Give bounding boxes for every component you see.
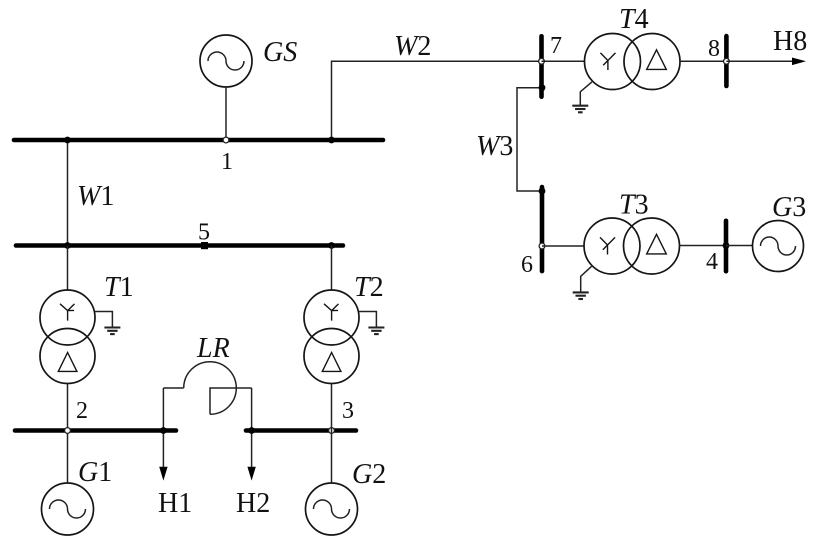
junction bus3-H2 xyxy=(248,427,255,434)
svg-text:G3: G3 xyxy=(772,192,806,223)
svg-text:T3: T3 xyxy=(619,190,649,221)
svg-text:H1: H1 xyxy=(158,488,192,519)
bus 2 xyxy=(15,428,176,433)
svg-text:2: 2 xyxy=(76,398,88,424)
wire T1 to G1 xyxy=(67,384,69,483)
node 1 (open circle) xyxy=(223,137,229,143)
svg-text:LR: LR xyxy=(196,333,230,364)
svg-text:3: 3 xyxy=(342,398,354,424)
wire bus5 to T2 xyxy=(331,246,333,291)
junction bus6-W3 xyxy=(539,188,546,195)
junction bus7-W3 xyxy=(539,84,546,91)
transformer T4 xyxy=(585,34,681,90)
svg-text:T4: T4 xyxy=(619,4,649,35)
svg-text:W2: W2 xyxy=(394,31,431,62)
svg-text:H8: H8 xyxy=(773,26,807,57)
junction bus2-H1 xyxy=(160,427,167,434)
wire W2 xyxy=(332,61,542,140)
transformer T3 xyxy=(584,218,680,274)
junction bus4 xyxy=(723,242,730,249)
svg-text:T2: T2 xyxy=(354,272,384,303)
wire GS to bus 1 xyxy=(225,87,227,140)
bus 6 xyxy=(540,187,545,271)
svg-text:G2: G2 xyxy=(352,459,386,490)
generator G2 xyxy=(306,483,358,535)
bus 4 xyxy=(724,221,729,271)
wire T2 to G2 xyxy=(331,384,333,483)
svg-text:T1: T1 xyxy=(104,272,134,303)
load arrow H1 xyxy=(159,467,167,481)
svg-text:1: 1 xyxy=(221,149,233,175)
reactor LR xyxy=(163,362,251,415)
ground T2 xyxy=(359,312,384,335)
wire T3 to bus 4 xyxy=(680,245,727,247)
node wire-bus8 (open circle) xyxy=(724,58,730,64)
wire bus7 to T4 xyxy=(542,60,585,62)
generator G1 xyxy=(42,483,94,535)
svg-text:H2: H2 xyxy=(236,488,270,519)
svg-text:G1: G1 xyxy=(78,457,112,488)
generator GS xyxy=(200,35,252,87)
junction bus1-W1 xyxy=(64,137,71,144)
bus 5 xyxy=(16,243,343,248)
node T2-bus3 (open circle) xyxy=(329,428,335,434)
bus 7 xyxy=(539,36,544,96)
svg-text:W1: W1 xyxy=(77,181,114,212)
wire T4 to bus 8 xyxy=(680,60,726,62)
generator G3 xyxy=(753,221,804,272)
wire LR right to H2 xyxy=(251,388,253,468)
svg-text:4: 4 xyxy=(706,249,718,275)
junction bus1-W2 xyxy=(328,137,335,144)
junction bus5-T2 xyxy=(328,242,335,249)
wire W3 xyxy=(517,88,542,191)
node W2-bus7 (open circle) xyxy=(539,58,545,64)
transformer T1 xyxy=(40,290,95,384)
bus 8 xyxy=(724,36,729,86)
svg-text:6: 6 xyxy=(521,252,533,278)
svg-text:5: 5 xyxy=(198,220,210,246)
bus 1 xyxy=(14,138,383,143)
node bus6-T3 (open circle) xyxy=(539,243,545,249)
load arrow H2 xyxy=(247,467,255,481)
node 5 tick xyxy=(201,242,208,249)
load arrow H8 xyxy=(726,60,792,62)
wire W1 xyxy=(67,140,69,246)
wire bus4 to G3 xyxy=(726,245,752,247)
svg-text:GS: GS xyxy=(263,37,297,68)
svg-text:7: 7 xyxy=(550,33,562,59)
junction bus5-T1 xyxy=(64,242,71,249)
svg-text:8: 8 xyxy=(708,36,720,62)
svg-text:W3: W3 xyxy=(476,131,513,162)
transformer T2 xyxy=(304,290,359,384)
ground T1 xyxy=(95,312,120,335)
wire bus6 to T3 xyxy=(542,245,584,247)
node T1-bus2 (open circle) xyxy=(65,428,71,434)
wire LR left to H1 xyxy=(162,388,164,468)
ground T3 xyxy=(573,266,592,299)
wire bus5 to T1 xyxy=(67,246,69,291)
bus 3 xyxy=(246,428,356,433)
ground T4 xyxy=(572,82,592,113)
